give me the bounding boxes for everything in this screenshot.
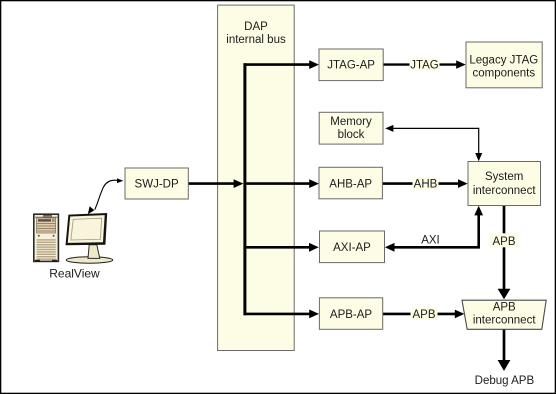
- wire APB interconnect to Debug APB: [498, 330, 511, 372]
- wire System interconnect to AXI-AP (double arrow): [385, 206, 483, 252]
- svg-text:AXI: AXI: [421, 234, 440, 246]
- svg-text:JTAG-AP: JTAG-AP: [327, 60, 375, 72]
- svg-text:components: components: [472, 67, 535, 79]
- wire bus to JTAG-AP: [244, 60, 319, 69]
- box JTAG-AP: [319, 49, 383, 81]
- wire RealView host to SWJ-DP (curved double arrow): [88, 178, 124, 214]
- svg-text:APB: APB: [493, 302, 516, 314]
- svg-text:JTAG: JTAG: [410, 60, 439, 72]
- svg-text:RealView: RealView: [49, 267, 100, 281]
- svg-text:Debug APB: Debug APB: [475, 375, 535, 387]
- wire bus to AHB-AP: [246, 179, 319, 188]
- icon RealView monitor stand: [88, 245, 100, 259]
- wire APB-AP to APB interconnect: [383, 308, 465, 321]
- svg-text:APB: APB: [492, 236, 515, 248]
- svg-text:interconnect: interconnect: [473, 315, 536, 327]
- svg-text:interconnect: interconnect: [473, 185, 536, 197]
- wire bus to AXI-AP: [246, 243, 319, 252]
- svg-text:System: System: [485, 171, 523, 183]
- icon RealView monitor base: [66, 257, 113, 263]
- wire JTAG-AP to Legacy JTAG components: [383, 58, 466, 72]
- box APB interconnect (trapezoid): [462, 300, 546, 329]
- wire DAP internal bus vertical: [243, 63, 246, 315]
- icon RealView host computer tower: [34, 214, 59, 262]
- svg-text:APB: APB: [412, 309, 435, 321]
- svg-text:Memory: Memory: [330, 116, 372, 128]
- svg-text:AHB-AP: AHB-AP: [329, 178, 372, 190]
- svg-text:SWJ-DP: SWJ-DP: [135, 179, 179, 191]
- box AHB-AP: [319, 167, 382, 199]
- svg-text:DAP: DAP: [244, 21, 268, 33]
- svg-text:APB-AP: APB-AP: [330, 309, 373, 321]
- box SWJ-DP: [125, 168, 188, 199]
- svg-text:block: block: [338, 129, 365, 141]
- wire bus to APB-AP: [244, 310, 319, 319]
- wire Memory block to System interconnect (double arrow): [385, 125, 482, 161]
- svg-text:AXI-AP: AXI-AP: [333, 242, 371, 254]
- box APB-AP: [319, 298, 382, 330]
- wire AHB-AP to System interconnect: [383, 178, 468, 191]
- svg-text:Legacy JTAG: Legacy JTAG: [469, 54, 538, 66]
- box System interconnect: [468, 162, 541, 206]
- box AXI-AP: [320, 231, 385, 263]
- wire System interconnect to APB interconnect: [490, 206, 518, 299]
- icon RealView monitor: [66, 213, 108, 245]
- box Memory block: [319, 112, 383, 144]
- wire SWJ-DP to bus: [188, 179, 243, 188]
- box DAP internal bus: [218, 5, 295, 350]
- svg-text:internal bus: internal bus: [226, 34, 286, 46]
- box Legacy JTAG components: [466, 42, 542, 88]
- svg-text:AHB: AHB: [414, 179, 438, 191]
